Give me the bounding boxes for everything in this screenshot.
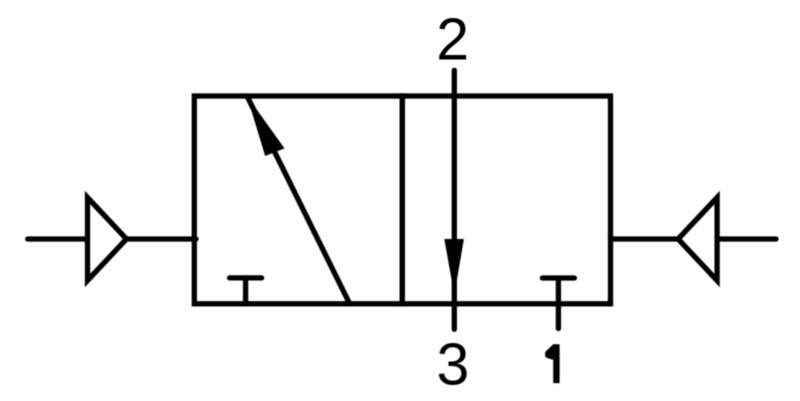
pilot triangle left [88, 198, 127, 281]
valve body right box [402, 96, 610, 304]
wire port 1 stub and T stem [556, 278, 561, 329]
blocked port T right box bar (port 1) [542, 275, 574, 280]
port label 1 [545, 344, 559, 383]
blocked port T left box bar [230, 275, 262, 280]
wire flow path arrow 1 to 2 diagonal line [247, 96, 350, 304]
arrowhead of diagonal flow arrow [247, 96, 285, 156]
valve body left box [194, 96, 402, 304]
arrowhead of vertical flow arrow [444, 239, 464, 295]
wire right box to apex [611, 236, 679, 241]
pilot triangle right [678, 198, 717, 281]
wire right pilot lead [717, 236, 776, 241]
svg-text:2: 2 [436, 6, 469, 72]
wire left apex to box [127, 236, 197, 241]
wire port 2 to port 3 vertical line [452, 70, 457, 329]
blocked port T left box stem [243, 278, 248, 304]
svg-text:3: 3 [436, 331, 469, 397]
wire left pilot lead [28, 236, 88, 241]
